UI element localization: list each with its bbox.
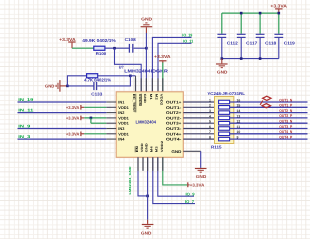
svg-text:GND: GND bbox=[143, 94, 147, 104]
wire C108 to GND node bbox=[134, 47, 147, 49]
ground GND (bottom) bbox=[141, 220, 153, 236]
op-amp IC U? LMH32404 body bbox=[116, 92, 183, 158]
power port +3.3VA (VDD1 pin) bbox=[66, 105, 84, 110]
svg-text:GND: GND bbox=[145, 142, 149, 152]
svg-text:1: 1 bbox=[209, 98, 211, 102]
wire IC pin to IO_7 bbox=[153, 157, 195, 203]
svg-text:8: 8 bbox=[209, 136, 211, 140]
capacitor C133 bbox=[91, 82, 103, 97]
svg-text:VDD1: VDD1 bbox=[118, 121, 129, 126]
svg-text:GND: GND bbox=[141, 230, 152, 235]
wire output OUT2_P bbox=[230, 117, 308, 119]
svg-text:R115: R115 bbox=[211, 144, 222, 149]
wire output OUT3_N bbox=[230, 122, 308, 124]
wire C133 to node (up) bbox=[97, 76, 130, 86]
svg-text:OUT1+: OUT1+ bbox=[166, 99, 182, 104]
wire output OUT1_N bbox=[230, 101, 308, 103]
capacitor C119 bbox=[274, 13, 295, 59]
svg-text:C118: C118 bbox=[265, 40, 277, 45]
power port +3.3VA (VDD1 pin) bbox=[66, 131, 84, 136]
svg-text:OUT3_P: OUT3_P bbox=[279, 125, 292, 129]
node junction R100/C108/pin2 bbox=[113, 47, 116, 50]
svg-text:M2: M2 bbox=[155, 94, 159, 100]
svg-text:EN: EN bbox=[135, 145, 139, 152]
svg-text:GND: GND bbox=[141, 16, 152, 21]
ground GND (right of IC) bbox=[195, 168, 207, 179]
svg-text:LMH32404IDGKR: LMH32404IDGKR bbox=[124, 69, 168, 74]
svg-text:OUT1_N: OUT1_N bbox=[279, 98, 292, 102]
wire node to IC pin1 top bbox=[130, 75, 135, 77]
power port +3.3VA (bottom) bbox=[187, 182, 204, 187]
svg-text:+3.3VA: +3.3VA bbox=[190, 182, 205, 187]
svg-text:DC_TEST: DC_TEST bbox=[132, 94, 136, 113]
svg-text:VDD2: VDD2 bbox=[160, 140, 164, 152]
capacitor C118 bbox=[256, 13, 277, 59]
svg-text:M4: M4 bbox=[150, 146, 154, 152]
node junction 4.7K/C133/IC pin1 bbox=[129, 75, 132, 78]
node junction bottom GND bbox=[146, 195, 149, 198]
wire junction to IC pin VOCM (elbow) bbox=[115, 48, 142, 92]
power port +3.3VA (above IC) bbox=[154, 54, 171, 63]
svg-text:IN2: IN2 bbox=[118, 110, 125, 115]
ground GND (cap bank) bbox=[216, 59, 228, 75]
capacitor C112 bbox=[217, 13, 238, 59]
wire IC GND pin to ground bbox=[183, 150, 200, 152]
svg-text:OUT3-: OUT3- bbox=[166, 126, 182, 131]
svg-text:OUT2-: OUT2- bbox=[166, 115, 182, 120]
wire GND up to 4.7K resistor bbox=[67, 76, 86, 86]
wire IC pin to IO_19 bbox=[152, 37, 191, 91]
wire output OUT1_P bbox=[230, 106, 308, 108]
IC bottom pin stubs bbox=[138, 157, 163, 171]
svg-text:C117: C117 bbox=[246, 40, 258, 45]
svg-text:GND: GND bbox=[45, 83, 55, 88]
svg-text:VDD: VDD bbox=[140, 142, 144, 152]
svg-text:IN_11: IN_11 bbox=[18, 108, 34, 113]
wire GND rail (caps) bbox=[222, 58, 279, 60]
R115 internal resistors bbox=[219, 100, 230, 141]
svg-text:VOCM: VOCM bbox=[138, 94, 142, 107]
svg-text:OUT1_P: OUT1_P bbox=[279, 104, 292, 108]
wire R100 to C108 bbox=[105, 47, 129, 49]
wire output OUT4_P bbox=[230, 138, 308, 140]
svg-text:IN4: IN4 bbox=[118, 137, 125, 142]
svg-text:IN3: IN3 bbox=[118, 126, 125, 131]
IC right pin names bbox=[166, 99, 182, 153]
svg-text:M3: M3 bbox=[155, 146, 159, 152]
svg-text:OUT2_P: OUT2_P bbox=[279, 114, 292, 118]
IC top pin names (rotated) bbox=[132, 94, 163, 113]
svg-text:OUT3_N: OUT3_N bbox=[279, 120, 292, 124]
wire input IN_11 bbox=[18, 112, 107, 114]
differential pair directive bbox=[260, 96, 271, 108]
svg-text:C119: C119 bbox=[284, 40, 296, 45]
capacitor C108 bbox=[125, 37, 137, 53]
svg-text:OUT4_P: OUT4_P bbox=[279, 135, 292, 139]
svg-text:7: 7 bbox=[209, 130, 211, 134]
node junction C108/GND/pin3 bbox=[145, 47, 148, 50]
rail junction dots bbox=[221, 12, 281, 60]
svg-text:49.9K 0402/1%: 49.9K 0402/1% bbox=[82, 38, 116, 43]
wire GND to C133 bbox=[67, 85, 94, 87]
IC pin stub (bottom) bbox=[142, 157, 144, 170]
resistor R100 49.9K bbox=[82, 38, 116, 56]
svg-text:R100: R100 bbox=[96, 51, 107, 56]
node junction VDD1 pins bbox=[90, 117, 93, 120]
svg-text:IN_9: IN_9 bbox=[18, 123, 31, 128]
IC bottom pin names (rotated) bbox=[135, 140, 164, 152]
svg-text:+3.3VA: +3.3VA bbox=[66, 115, 80, 120]
svg-text:+3.3VA: +3.3VA bbox=[66, 131, 80, 136]
resistor R 4.7K bbox=[84, 74, 111, 83]
power port +3.3VA (top left) bbox=[59, 37, 76, 48]
svg-text:C133: C133 bbox=[91, 92, 103, 97]
power port +3.3VA (cap bank) bbox=[270, 4, 287, 14]
wire input IN_3 bbox=[18, 138, 107, 140]
svg-text:IO_11: IO_11 bbox=[183, 39, 194, 44]
wire to second VDD1 pin bbox=[91, 122, 106, 124]
svg-text:OUT2+: OUT2+ bbox=[166, 110, 182, 115]
svg-text:LMH32404: LMH32404 bbox=[136, 120, 157, 125]
svg-text:IO_19: IO_19 bbox=[182, 33, 193, 38]
svg-text:GND: GND bbox=[217, 70, 228, 75]
svg-text:M1: M1 bbox=[149, 94, 153, 100]
wire input IN_19 bbox=[18, 101, 107, 103]
svg-text:GND: GND bbox=[171, 149, 181, 154]
svg-text:4: 4 bbox=[209, 114, 211, 118]
svg-text:GND: GND bbox=[196, 174, 207, 179]
svg-text:OUT4_N: OUT4_N bbox=[279, 130, 292, 134]
wire IC pin to IO_11 bbox=[158, 43, 192, 92]
wire +3.3VA rail (caps) bbox=[222, 12, 279, 14]
svg-text:OUT2_N: OUT2_N bbox=[279, 109, 292, 113]
svg-text:4.7K 0402/1%: 4.7K 0402/1% bbox=[84, 78, 111, 83]
IC left pin names bbox=[118, 99, 129, 141]
power port +3.3VA (VDD1 pin) bbox=[66, 115, 84, 120]
wire output OUT3_P bbox=[230, 128, 308, 130]
svg-text:IO_7: IO_7 bbox=[185, 199, 195, 204]
capacitor C117 bbox=[237, 13, 258, 59]
wire 4.7K to node bbox=[98, 75, 131, 77]
svg-text:VDD1: VDD1 bbox=[118, 115, 129, 120]
wire output OUT2_N bbox=[230, 112, 308, 114]
svg-text:VDD1: VDD1 bbox=[118, 105, 129, 110]
svg-text:OUT3+: OUT3+ bbox=[166, 121, 182, 126]
wire +3.3VA to VDD1 pin bbox=[84, 133, 106, 135]
svg-text:OUT4+: OUT4+ bbox=[166, 131, 182, 136]
svg-text:OUT4-: OUT4- bbox=[166, 137, 182, 142]
R115 pin numbers left bbox=[209, 98, 211, 139]
svg-text:+3.3VA: +3.3VA bbox=[154, 54, 171, 59]
wire VDD1 to VDD1 (vertical) bbox=[90, 118, 92, 123]
ground GND (top) bbox=[141, 16, 153, 48]
wire +3.3VA to IC VDD2 pin (top) bbox=[162, 63, 164, 92]
wire IC pin to IO_9 bbox=[158, 157, 194, 196]
svg-text:+3.3VA: +3.3VA bbox=[270, 4, 287, 9]
R115 pin numbers right bbox=[237, 98, 241, 139]
svg-text:C112: C112 bbox=[227, 40, 239, 45]
svg-text:IO_9: IO_9 bbox=[186, 191, 196, 196]
wire IC GND pin (bottom) to ground bbox=[147, 157, 149, 220]
wire input IN_9 bbox=[18, 128, 107, 130]
svg-text:5: 5 bbox=[209, 120, 211, 124]
wire IC VDD2 pin (bottom) to +3.3VA bbox=[163, 157, 187, 185]
svg-text:IN_3: IN_3 bbox=[18, 134, 31, 139]
wire GND node down to IC GND pin (top) bbox=[145, 48, 147, 92]
svg-text:YC248-JR-0731RL: YC248-JR-0731RL bbox=[207, 91, 245, 96]
svg-text:IN_19: IN_19 bbox=[18, 97, 34, 102]
IC left pin stubs bbox=[106, 102, 116, 139]
ground GND (left) bbox=[45, 80, 68, 92]
wire IC pin to GND join (elbow) bbox=[138, 157, 148, 196]
wire +3.3VA to VDD1 pin bbox=[84, 117, 106, 119]
wires IC outputs to R115 bbox=[183, 102, 218, 139]
svg-text:LM32404_GND: LM32404_GND bbox=[128, 167, 132, 195]
svg-text:6: 6 bbox=[209, 125, 211, 129]
svg-text:2: 2 bbox=[209, 104, 211, 108]
svg-text:3: 3 bbox=[209, 109, 211, 113]
svg-text:IN1: IN1 bbox=[118, 99, 125, 104]
svg-text:C108: C108 bbox=[125, 37, 137, 42]
svg-text:+3.3VA: +3.3VA bbox=[66, 105, 80, 110]
wire output OUT4_N bbox=[230, 133, 308, 135]
node junction ground/R/C bbox=[66, 85, 69, 88]
svg-text:VDD1: VDD1 bbox=[118, 131, 129, 136]
svg-text:OUT1-: OUT1- bbox=[166, 105, 182, 110]
svg-text:+3.3VA: +3.3VA bbox=[59, 37, 76, 42]
resistor network R115 body bbox=[215, 97, 234, 144]
wire +3.3VA to R100 bbox=[72, 47, 94, 49]
svg-text:VDD2: VDD2 bbox=[160, 94, 164, 106]
IC top pin stubs bbox=[136, 78, 163, 92]
wire +3.3VA to VDD1 pin bbox=[84, 106, 106, 108]
